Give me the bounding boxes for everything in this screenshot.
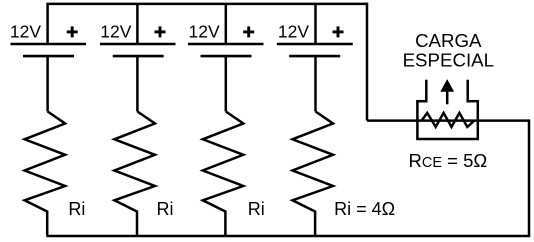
label CARGA ESPECIAL xyxy=(403,30,494,71)
wire: battery B4 positive lead xyxy=(314,4,317,44)
battery B4 short plate (-) xyxy=(289,55,340,58)
wire: load right to bottom xyxy=(478,121,529,236)
svg-text:Ri: Ri xyxy=(248,199,265,219)
polarity + (B1) xyxy=(67,26,78,37)
wire: into load left xyxy=(367,119,417,122)
label Ri (R3) xyxy=(248,199,265,219)
label 12V (B3) xyxy=(189,21,220,41)
label 12V (B4) xyxy=(278,21,309,41)
label Ri (R1) xyxy=(68,199,85,219)
wire: bottom rail xyxy=(46,235,530,238)
label 12V (B2) xyxy=(100,21,131,41)
polarity + (B3) xyxy=(243,26,254,37)
wire: B2 negative lead xyxy=(136,56,139,111)
battery B4 long plate (+) xyxy=(277,43,353,46)
wire: B1 negative lead xyxy=(46,56,49,111)
label RCE = 5ohm xyxy=(409,150,488,171)
resistor RCE zigzag xyxy=(422,113,475,127)
load terminal prong left xyxy=(425,80,428,103)
battery B2 short plate (-) xyxy=(113,55,164,58)
svg-text:12V: 12V xyxy=(10,21,41,41)
resistor Ri 4 xyxy=(293,112,334,236)
load box (CARGA ESPECIAL) xyxy=(416,100,479,139)
battery B1 long plate (+) xyxy=(11,43,87,46)
wire: B4 negative lead xyxy=(314,56,317,111)
svg-text:Ri: Ri xyxy=(68,199,85,219)
polarity + (B2) xyxy=(155,26,166,37)
svg-text:12V: 12V xyxy=(189,21,220,41)
wire: through load box xyxy=(417,119,477,122)
battery B3 long plate (+) xyxy=(188,43,264,46)
wire: top rail drop to load (right vertical) xyxy=(366,4,367,121)
wire: battery B1 positive lead xyxy=(46,4,49,44)
battery B1 short plate (-) xyxy=(23,55,74,58)
load terminal prong right xyxy=(466,80,469,103)
svg-text:Ri = 4Ω: Ri = 4Ω xyxy=(334,199,395,219)
arrow (load adjustment) xyxy=(441,80,453,104)
resistor Ri 3 xyxy=(203,112,244,236)
wire: battery B2 positive lead xyxy=(136,4,139,44)
svg-text:Ri: Ri xyxy=(157,199,174,219)
label Ri = 4ohm (R4) xyxy=(334,199,395,219)
wire: battery B3 positive lead xyxy=(225,4,228,44)
polarity + (B4) xyxy=(333,26,344,37)
label 12V (B1) xyxy=(10,21,41,41)
wire: B3 negative lead xyxy=(225,56,228,111)
resistor Ri 2 xyxy=(114,112,154,236)
svg-text:ESPECIAL: ESPECIAL xyxy=(403,50,494,71)
label Ri (R2) xyxy=(157,199,174,219)
battery B2 long plate (+) xyxy=(100,43,176,46)
battery B3 short plate (-) xyxy=(201,55,252,58)
svg-text:12V: 12V xyxy=(100,21,131,41)
resistor Ri 1 xyxy=(25,112,66,236)
wire: top rail xyxy=(46,3,367,6)
svg-text:RCE = 5Ω: RCE = 5Ω xyxy=(409,150,488,171)
svg-text:12V: 12V xyxy=(278,21,309,41)
svg-text:CARGA: CARGA xyxy=(415,30,482,51)
